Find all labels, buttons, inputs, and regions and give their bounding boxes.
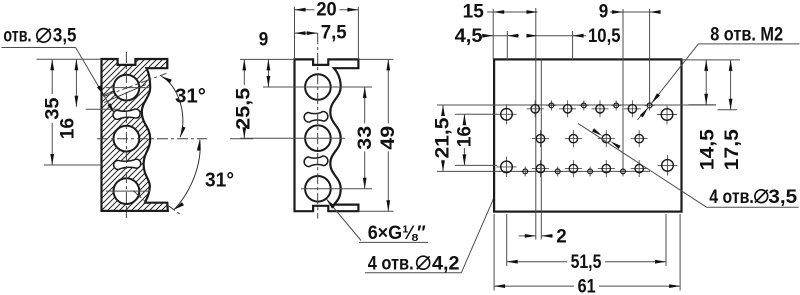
- top row medium hole 1: [527, 100, 544, 117]
- left view top edge extension line: [37, 58, 102, 60]
- label 4 otv. 3,5 leader line: [578, 123, 707, 207]
- dimension 17,5 extension line: [718, 109, 737, 111]
- top row M2 hole 2: [579, 100, 589, 110]
- dimension 4,5 line and outside arrows: [484, 35, 507, 37]
- svg-text:49: 49: [378, 126, 399, 150]
- dimension 15 line: [487, 11, 538, 13]
- left view angled channel centerline 31 deg upper: [104, 73, 167, 96]
- dimension 51,5 extension lines: [506, 214, 508, 266]
- left section view: hatched body outline: [102, 59, 168, 211]
- label 6xG1/8 leader: [359, 241, 428, 243]
- middle view upper slot: [304, 111, 328, 122]
- dimension 16 line: [75, 59, 77, 107]
- extension line left edge (x=493): [492, 9, 494, 59]
- svg-text:9: 9: [259, 30, 269, 51]
- svg-text:33: 33: [355, 126, 376, 150]
- angle dimension 31 deg upper arc: [161, 76, 183, 137]
- svg-text:4 отв.: 4 отв.: [709, 187, 754, 208]
- top row M2 hole 3: [611, 100, 621, 110]
- svg-text:3,5: 3,5: [768, 187, 797, 208]
- dimension 35 line: [51, 59, 53, 94]
- top row medium hole 4: [624, 100, 641, 117]
- top row medium hole 3: [592, 100, 609, 117]
- dimension 9 line and outside arrows: [610, 11, 660, 13]
- svg-text:31°: 31°: [175, 86, 206, 108]
- label 8 otv. M2 second arrow: [637, 108, 648, 120]
- top row M2 hole 1: [546, 100, 556, 110]
- right plan view plate outline: [494, 59, 681, 211]
- svg-text:10,5: 10,5: [588, 26, 621, 47]
- dimension 61 extension lines: [493, 214, 495, 291]
- long horizontal centerline top small-hole row: [437, 104, 716, 106]
- bottom row M2 hole 2: [553, 166, 563, 176]
- left view bottom hole horizontal centerline: [106, 190, 150, 192]
- label 8 otv. M2 leader shelf: [698, 43, 799, 45]
- svg-text:4,2: 4,2: [432, 253, 460, 274]
- dimension 16 (right view) line: [463, 114, 465, 125]
- dimension 9 line: [267, 59, 269, 87]
- svg-text:2: 2: [556, 227, 567, 248]
- bottom row M2 hole 3: [585, 166, 595, 176]
- label otv. 3,5 leader arrow at wall: [97, 85, 104, 95]
- svg-text:16: 16: [455, 126, 476, 147]
- dimension 20 extension lines: [294, 7, 296, 60]
- left view angled channel centerline 31 deg lower: [133, 191, 147, 203]
- angle dimension 31 deg lower arc: [174, 140, 200, 210]
- svg-text:4 отв.: 4 отв.: [368, 253, 414, 274]
- label 4 otv. 4,2 leader arrows: [498, 173, 504, 184]
- dimension 49 line: [387, 59, 389, 123]
- label otv. 3,5 diameter symbol: [37, 29, 51, 43]
- label 8 otv. M2 leader line: [652, 44, 699, 103]
- label 4 otv. 4,2 leader line to plate hole: [461, 153, 513, 273]
- svg-text:31°: 31°: [205, 170, 234, 192]
- long vertical extension line x=541.3 (dim 2): [540, 59, 542, 239]
- corner hole 4,2 bottom-right: [658, 155, 678, 175]
- bottom row M2 hole 4: [618, 166, 628, 176]
- svg-text:14,5: 14,5: [698, 129, 719, 170]
- bottom row medium hole 3: [598, 160, 615, 177]
- middle view middle hole horizontal centerline: [240, 137, 345, 139]
- left view vertical centerline: [125, 52, 127, 218]
- dimension 25,5 line: [243, 59, 245, 85]
- svg-text:16: 16: [57, 118, 78, 139]
- left view upper slot (otv. 3.5): [113, 109, 141, 120]
- label otv. 3,5 leader line: [2, 47, 76, 49]
- dimension 51,5 line: [507, 261, 567, 263]
- dimension 61 line: [494, 285, 574, 287]
- dimension 16 extension line at upper slot: [86, 108, 120, 110]
- svg-text:7,5: 7,5: [321, 22, 347, 43]
- middle view port hole top (G1/8): [305, 74, 331, 100]
- bottom row medium hole 2: [565, 160, 582, 177]
- svg-text:8 отв. М2: 8 отв. М2: [710, 25, 783, 46]
- middle row hole 3,5 #3: [598, 130, 615, 147]
- dimension 33 line: [364, 87, 366, 123]
- svg-text:20: 20: [316, 0, 336, 20]
- left view channel wall line B: [103, 91, 113, 95]
- long vertical extension line x=649.6 (dim 9 / M2): [649, 9, 651, 105]
- dimension 21,5 line: [442, 105, 444, 116]
- middle view top hole horizontal centerline: [263, 86, 372, 88]
- middle view bottom hole horizontal centerline: [301, 188, 372, 190]
- left view channel wall line A: [104, 85, 146, 103]
- bottom row medium hole 4: [631, 160, 648, 177]
- dimension 10,5 line and outside arrows: [527, 35, 586, 37]
- left view port hole middle (G1/8): [114, 126, 140, 152]
- long horizontal centerline bottom small-hole row: [437, 170, 650, 172]
- svg-text:25,5: 25,5: [234, 87, 255, 129]
- dimension 14,5 line: [705, 60, 707, 105]
- svg-text:4,5: 4,5: [455, 26, 483, 47]
- extension line x=507.3: [506, 31, 508, 59]
- dimension 35 extension line at lower slot: [44, 164, 103, 166]
- dimension 49 extension lines: [358, 58, 393, 60]
- svg-text:отв.: отв.: [3, 25, 31, 46]
- left view port hole bottom (G1/8): [114, 178, 140, 204]
- left view port hole top (G1/8): [114, 75, 140, 101]
- svg-text:15: 15: [463, 1, 485, 22]
- svg-text:51,5: 51,5: [571, 252, 602, 273]
- extension line x=572.6: [572, 31, 574, 59]
- left view lower slot (otv. 3.5): [113, 159, 141, 170]
- top edge extension line to right: [682, 59, 741, 61]
- dimension 16 (right view) extension lines: [455, 113, 497, 115]
- dimension 7,5 line: [295, 32, 318, 34]
- svg-text:3,5: 3,5: [53, 26, 77, 47]
- svg-text:9: 9: [599, 1, 609, 22]
- left view: internal step edge bottom-right: [145, 202, 167, 204]
- svg-text:17,5: 17,5: [722, 129, 743, 170]
- svg-text:61: 61: [578, 276, 596, 295]
- middle row hole 3,5 #4: [631, 130, 648, 147]
- left view middle hole horizontal centerline extended right: [97, 138, 207, 140]
- dimension 20 line: [295, 9, 315, 11]
- dimension 9 extension line (top edge left): [240, 58, 294, 60]
- label 4 otv. 3,5 leader arrows: [610, 141, 620, 149]
- corner hole 4,2 top-left: [496, 104, 516, 124]
- corner hole 4,2 top-right: [657, 105, 677, 125]
- svg-text:35: 35: [43, 97, 64, 120]
- top row M2 hole 4 (leader target): [645, 100, 655, 110]
- middle row hole 3,5 #2: [565, 130, 582, 147]
- middle profile view outline: [295, 59, 359, 211]
- middle view lower slot: [304, 156, 328, 167]
- label 4 otv. 3,5 leader shelf: [707, 206, 799, 208]
- corner hole 4,2 bottom-left: [496, 157, 516, 177]
- label 4 otv. 4,2 leader underline: [365, 272, 461, 274]
- dimension 14,5 extension line: [688, 104, 715, 106]
- svg-text:21,5: 21,5: [432, 117, 453, 158]
- dimension 17,5 line: [730, 60, 732, 110]
- middle view port hole bottom (G1/8): [305, 176, 331, 202]
- label otv. 3,5 leader arrow at slot: [107, 103, 114, 113]
- long vertical extension line x=623 (dim 9): [622, 9, 624, 171]
- bottom row M2 hole 1: [520, 166, 530, 176]
- bottom row medium hole 1: [532, 160, 549, 177]
- left view top hole horizontal centerline: [106, 87, 150, 89]
- middle view port hole middle (G1/8): [305, 125, 331, 151]
- middle view vertical centerline: [317, 33, 319, 218]
- middle row hole 3,5 #1: [532, 130, 549, 147]
- top row medium hole 2: [559, 100, 576, 117]
- dimension 2 line and outside arrows: [519, 235, 536, 237]
- long vertical extension line x=536 (dim 15/2): [535, 8, 537, 240]
- svg-text:6×G⅛″: 6×G⅛″: [368, 223, 426, 244]
